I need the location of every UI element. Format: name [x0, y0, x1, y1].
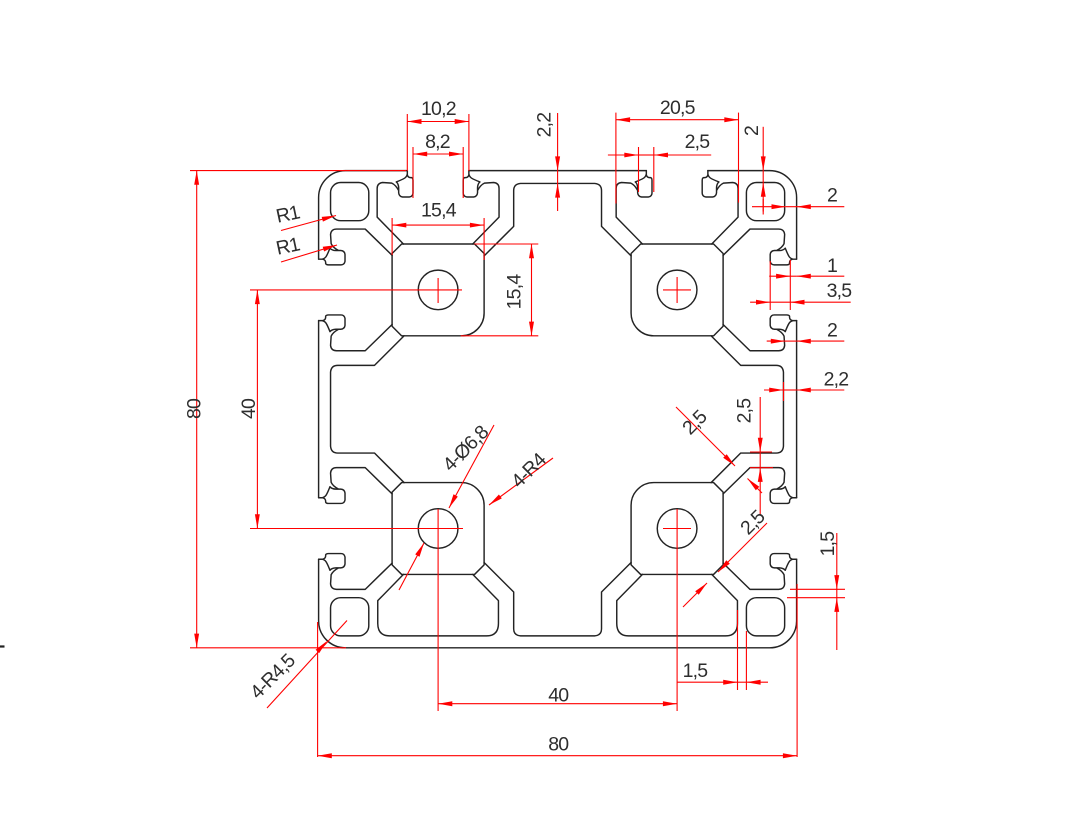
central cavity arm right [711, 336, 783, 483]
central cavity arm left [331, 336, 404, 483]
central cavity arm top [484, 183, 631, 255]
central cavity arm bottom [484, 563, 631, 636]
T-slot left upper (open) [319, 229, 392, 351]
T-slot right upper (open) [723, 229, 796, 351]
svg-text:3,5: 3,5 [827, 280, 853, 302]
svg-text:80: 80 [184, 398, 206, 419]
svg-text:1,5: 1,5 [817, 531, 839, 557]
T-slot top-left (open, 10.2/8.2) [377, 171, 499, 244]
svg-text:15,4: 15,4 [421, 200, 457, 222]
svg-text:15,4: 15,4 [504, 274, 526, 310]
core block with bore 6.8 (bottom-left) [392, 483, 484, 575]
svg-text:40: 40 [238, 398, 260, 419]
svg-text:2: 2 [827, 185, 837, 207]
svg-text:80: 80 [548, 734, 569, 756]
core block with bore 6.8 (bottom-right) [631, 483, 723, 575]
closed hex cavity bottom-left [378, 574, 499, 635]
dimension lines [190, 113, 851, 757]
svg-text:1: 1 [827, 255, 837, 277]
core block with bore 6.8 (top-right) [631, 244, 723, 336]
corner cavity top-right [746, 183, 784, 221]
corner cavity bottom-right [746, 598, 784, 636]
core block with bore 6.8 (top-left) [392, 244, 484, 336]
corner cavity top-left [331, 183, 369, 221]
svg-text:10,2: 10,2 [421, 98, 456, 120]
profile outer contour (80x80, R4.5 corners, slot openings) [319, 171, 797, 648]
svg-text:2,5: 2,5 [734, 398, 756, 424]
T-slot top-right (open, 20.5 chamber) [616, 171, 738, 244]
svg-text:2,5: 2,5 [685, 131, 711, 153]
svg-text:20,5: 20,5 [660, 97, 696, 119]
T-slot left lower (open) [319, 468, 392, 590]
svg-text:2,2: 2,2 [534, 113, 556, 138]
svg-text:40: 40 [548, 685, 569, 707]
svg-text:2,2: 2,2 [824, 369, 849, 391]
svg-text:2: 2 [827, 320, 837, 342]
svg-text:8,2: 8,2 [425, 131, 450, 153]
closed hex cavity bottom-right [617, 574, 738, 635]
dimension text [184, 97, 853, 756]
stray tick at left page margin [0, 645, 5, 647]
T-slot right lower (open) [723, 468, 796, 590]
arrowheads [407, 119, 421, 124]
corner cavity bottom-left [331, 598, 369, 636]
svg-text:1,5: 1,5 [683, 660, 709, 682]
svg-text:2: 2 [741, 126, 763, 136]
